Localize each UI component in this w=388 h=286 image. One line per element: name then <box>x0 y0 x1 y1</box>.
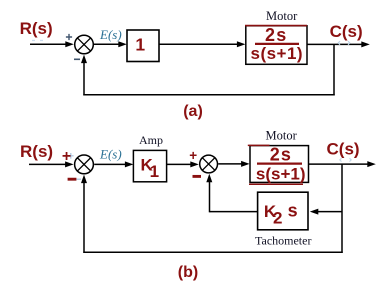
faint blue plus behind at S1b <box>68 153 74 159</box>
svg-text:Amp: Amp <box>139 133 163 147</box>
summing junction S2b <box>200 155 218 173</box>
wire S2b to motor block (b) <box>218 163 242 165</box>
faint blue minus behind at S1b <box>77 178 82 180</box>
maroon bottom edge of motor block (b) <box>249 183 303 185</box>
artifact marks under C(s) (a) <box>338 41 350 45</box>
wire motor (a) to output <box>307 43 362 45</box>
svg-text:(a): (a) <box>183 103 203 120</box>
outer feedback return vertical wire (b) <box>83 180 85 253</box>
svg-text:+: + <box>62 148 71 165</box>
wire S1a to block G1 <box>94 43 120 45</box>
wire K1 to summing junction S2b <box>167 163 192 165</box>
vertical wire K2 to S2b <box>209 178 211 212</box>
wire S1b to amp block K1 <box>94 163 126 165</box>
wire R(s) input (b) <box>29 163 66 165</box>
svg-text:E(s): E(s) <box>99 147 122 162</box>
maroon top-left edge segment of motor block (b) <box>248 144 270 146</box>
svg-text:C(s): C(s) <box>327 139 360 158</box>
feedback tap vertical wire (b) <box>341 164 343 253</box>
fraction bar (a) <box>255 43 299 45</box>
wire motor (b) to output <box>309 163 369 165</box>
arrowhead into K2 right side <box>310 209 319 215</box>
svg-text:Motor: Motor <box>266 9 298 23</box>
feedback return vertical wire (a) <box>83 60 85 95</box>
svg-text:1: 1 <box>150 162 159 181</box>
svg-text:s(s+1): s(s+1) <box>250 44 303 63</box>
svg-text:s: s <box>288 200 298 220</box>
arrowhead into motor block (b) <box>241 161 250 167</box>
block K2 (tachometer) <box>258 192 308 230</box>
svg-text:1: 1 <box>135 35 145 55</box>
arrowhead into S2b bottom <box>206 174 212 183</box>
svg-text:E(s): E(s) <box>99 27 122 42</box>
svg-text:Tachometer: Tachometer <box>255 233 311 247</box>
svg-text:s(s+1): s(s+1) <box>256 164 306 183</box>
fraction bar (b) <box>257 163 302 165</box>
minus sign at S1a <box>74 58 80 60</box>
arrowhead into S1b bottom <box>81 175 87 184</box>
plus sign at S1a <box>66 34 72 40</box>
wire K2 output to S2b <box>210 211 258 213</box>
svg-text:R(s): R(s) <box>20 142 53 161</box>
svg-text:C(s): C(s) <box>330 22 363 41</box>
summing junction S1b <box>75 155 94 174</box>
svg-text:+: + <box>189 148 197 163</box>
arrowhead output C(s) (b) <box>367 161 376 167</box>
svg-text:2: 2 <box>273 208 282 227</box>
block K1 (Amp) <box>133 150 166 181</box>
wire tap to tachometer K2 <box>316 211 342 213</box>
arrowhead into summing junction S2b <box>190 161 199 167</box>
arrowhead into S1a bottom <box>81 55 87 64</box>
block motor (a) 2s/s(s+1) <box>246 26 307 65</box>
feedback tap vertical wire (a) <box>333 44 335 95</box>
arrowhead into summing junction S1a <box>65 41 74 47</box>
svg-text:Motor: Motor <box>266 128 298 142</box>
block motor (b) 2s/s(s+1) <box>250 146 309 183</box>
wire G1 to motor block (a) <box>159 43 238 45</box>
arrowhead into block G1 <box>118 41 127 47</box>
feedback bottom wire (a) <box>83 94 334 96</box>
minus sign at S2b <box>193 175 202 178</box>
block G1 value 1 <box>127 30 159 62</box>
svg-text:R(s): R(s) <box>20 19 53 38</box>
artifact marks under C(s) (b) <box>340 158 351 161</box>
svg-text:2s: 2s <box>265 25 287 45</box>
arrowhead into motor block (a) <box>237 41 246 47</box>
artifact dots under R(s) <box>32 40 43 41</box>
arrowhead into summing junction S1b <box>65 161 74 167</box>
wire R(s) input (a) <box>30 43 67 45</box>
minus sign at S1b <box>68 178 77 181</box>
arrowhead output C(s) (a) <box>361 41 370 47</box>
arrowhead into block K1 <box>125 161 133 167</box>
svg-text:2s: 2s <box>270 145 292 165</box>
summing junction S1a <box>75 35 94 54</box>
outer feedback bottom wire (b) <box>83 251 342 253</box>
svg-text:(b): (b) <box>178 264 198 281</box>
maroon top edge of motor block (a) <box>245 25 307 27</box>
